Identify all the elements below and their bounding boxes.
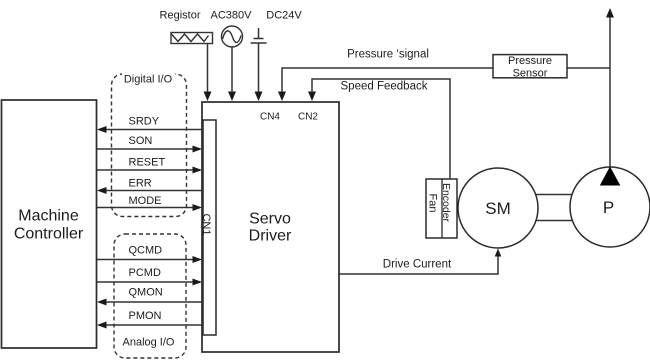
arrow DC: [255, 92, 263, 102]
svg-text:Pressure: Pressure: [508, 55, 552, 67]
DC source symbol: [251, 28, 267, 43]
wire SON: [97, 148, 200, 150]
Digital I/O dashed group box: [112, 74, 187, 217]
wire drive current: [339, 251, 498, 274]
AC source symbol: [222, 26, 243, 47]
wire resistor drop to servo: [207, 44, 209, 100]
svg-text:Pressure ‘signal: Pressure ‘signal: [347, 49, 429, 61]
wire AC source drop to servo: [231, 47, 233, 99]
svg-text:PMON: PMON: [129, 310, 162, 322]
svg-text:Sensor: Sensor: [513, 68, 548, 80]
svg-text:Digital I/O: Digital I/O: [124, 74, 173, 86]
wire SRDY: [99, 129, 202, 131]
arrow QMON left: [97, 299, 107, 306]
resistor symbol: [171, 33, 213, 44]
arrow drive current into SM: [495, 249, 502, 257]
arrow pump output top: [606, 8, 614, 18]
SM motor circle: [458, 168, 538, 248]
Analog I/O dashed group box: [114, 234, 186, 358]
machine controller box: [2, 100, 97, 348]
arrowheads into servo top: [97, 8, 614, 329]
svg-text:AC380V: AC380V: [211, 10, 253, 22]
svg-text:Servo: Servo: [249, 211, 291, 228]
shaft coupling: [536, 195, 573, 221]
arrow PMON left: [97, 322, 107, 329]
svg-text:SM: SM: [485, 199, 511, 218]
svg-text:CN4: CN4: [260, 112, 280, 123]
pressure sensor box: [493, 55, 567, 78]
svg-text:QCMD: QCMD: [129, 245, 163, 257]
wire PMON: [99, 324, 202, 326]
wire ERR: [99, 190, 202, 192]
svg-text:Driver: Driver: [249, 228, 292, 245]
wire pressure signal: [282, 68, 610, 99]
svg-text:MODE: MODE: [129, 195, 162, 207]
svg-text:RESET: RESET: [129, 157, 166, 169]
arrow PCMD right: [193, 279, 203, 286]
arrow CN2 speed: [308, 92, 316, 102]
svg-text:Analog I/O: Analog I/O: [123, 337, 175, 349]
wire pump output vertical: [609, 15, 611, 168]
servo driver box: [202, 102, 339, 352]
Digital I/O label background: [122, 71, 175, 84]
svg-text:Fan: Fan: [427, 194, 439, 213]
svg-text:Controller: Controller: [14, 226, 84, 243]
svg-text:CN2: CN2: [298, 112, 318, 123]
arrow SRDY left: [97, 126, 107, 133]
svg-text:Speed Feedback: Speed Feedback: [341, 81, 428, 93]
svg-text:PCMD: PCMD: [129, 267, 161, 279]
P pump circle: [570, 167, 650, 247]
svg-text:Registor: Registor: [160, 10, 201, 22]
wire DC source drop to servo: [258, 43, 260, 99]
arrow CN4 pressure: [278, 92, 286, 102]
svg-text:CN1: CN1: [200, 213, 212, 235]
wire MODE: [97, 207, 200, 209]
wire RESET: [97, 169, 200, 171]
arrow resistor: [204, 92, 212, 102]
arrow ERR left: [97, 187, 107, 194]
svg-text:Machine: Machine: [18, 208, 79, 225]
arrow MODE right: [193, 204, 203, 211]
svg-text:Encoder: Encoder: [440, 183, 452, 223]
wire PCMD: [97, 281, 200, 283]
wire QMON: [99, 301, 202, 303]
pump flow triangle: [600, 167, 621, 186]
encoder fan box: [426, 179, 457, 238]
arrow AC: [228, 92, 236, 102]
svg-text:Drive Current: Drive Current: [383, 259, 452, 271]
wire QCMD: [97, 259, 200, 261]
svg-text:SRDY: SRDY: [129, 116, 160, 128]
svg-text:DC24V: DC24V: [266, 10, 302, 22]
svg-text:ERR: ERR: [129, 178, 152, 190]
arrow QCMD right: [193, 256, 203, 263]
arrow RESET right: [193, 167, 203, 174]
encoder fan divider: [441, 179, 443, 238]
svg-text:SON: SON: [129, 135, 153, 147]
svg-text:P: P: [603, 198, 614, 217]
arrow SON right: [193, 146, 203, 153]
connector CN1 box: [203, 120, 216, 335]
svg-text:QMON: QMON: [129, 287, 163, 299]
wire speed feedback: [312, 79, 450, 179]
